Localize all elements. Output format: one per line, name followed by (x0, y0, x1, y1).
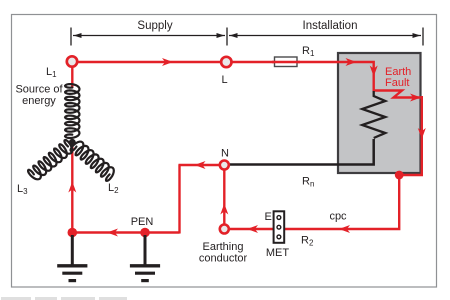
supply dimension line (71, 28, 227, 46)
svg-text:E: E (265, 211, 272, 223)
current arrow source return up (68, 182, 76, 193)
wire: earthing conductor riser (223, 165, 225, 229)
wire: phase top run L1 to fault (72, 62, 421, 98)
wire: star point to PEN earth run (71, 141, 73, 233)
svg-text:L2: L2 (108, 182, 119, 195)
current arrow supply top (162, 58, 173, 66)
resistor R1 (275, 57, 298, 67)
wire: L1 drop to winding (71, 62, 73, 88)
star point junction (69, 139, 76, 146)
winding L1 coil (65, 84, 79, 138)
winding L2 coil (71, 142, 114, 181)
svg-text:Source of: Source of (15, 84, 63, 96)
svg-text:Supply: Supply (137, 20, 172, 32)
node L1 (67, 56, 77, 66)
svg-text:L1: L1 (46, 66, 57, 79)
ground PEN (130, 235, 160, 281)
MET terminal (274, 211, 285, 243)
current arrow cpc (339, 225, 350, 233)
installation zone box (338, 53, 421, 173)
resistor earth-fault zigzag (362, 91, 385, 138)
ground source (57, 235, 87, 281)
wire: neutral riser from PEN (178, 165, 180, 234)
svg-text:Installation: Installation (303, 20, 358, 32)
junction dot PEN (140, 228, 150, 238)
node N (220, 161, 229, 170)
current arrow earthing conductor horizontal (247, 225, 258, 233)
wire: neutral into N node (179, 164, 225, 166)
svg-text:L: L (221, 74, 227, 86)
wire: red over R1 (272, 61, 300, 63)
svg-text:N: N (221, 148, 229, 160)
svg-text:R1: R1 (302, 45, 315, 58)
svg-text:conductor: conductor (199, 253, 248, 265)
wire: neutral Rn black run (224, 139, 373, 165)
installation dimension line (229, 28, 423, 46)
svg-text:PEN: PEN (131, 216, 154, 228)
wire: PEN horizontal (72, 231, 180, 233)
svg-text:R2: R2 (301, 235, 314, 248)
node earthing conductor (220, 225, 229, 234)
svg-text:L3: L3 (17, 183, 28, 196)
current arrow neutral to N (195, 161, 206, 169)
current arrow entering installation (346, 58, 357, 66)
winding L3 coil (28, 140, 72, 179)
svg-text:Rn: Rn (302, 176, 314, 189)
svg-text:MET: MET (266, 247, 290, 259)
svg-text:Earthing: Earthing (203, 241, 244, 253)
junction dot source earth (68, 228, 78, 238)
current arrow down right side (418, 128, 426, 139)
current arrow fault step (410, 94, 421, 102)
node L (221, 57, 231, 67)
current arrow fault drop (370, 66, 378, 77)
svg-text:Fault: Fault (385, 77, 409, 89)
junction dot cpc (395, 171, 404, 180)
cropped caption remnant (1, 297, 127, 300)
wire: fault return down right side (224, 96, 421, 229)
svg-text:cpc: cpc (329, 211, 347, 223)
current arrow PEN (107, 229, 118, 237)
current arrow earthing conductor up (220, 204, 228, 215)
svg-text:energy: energy (22, 95, 56, 107)
